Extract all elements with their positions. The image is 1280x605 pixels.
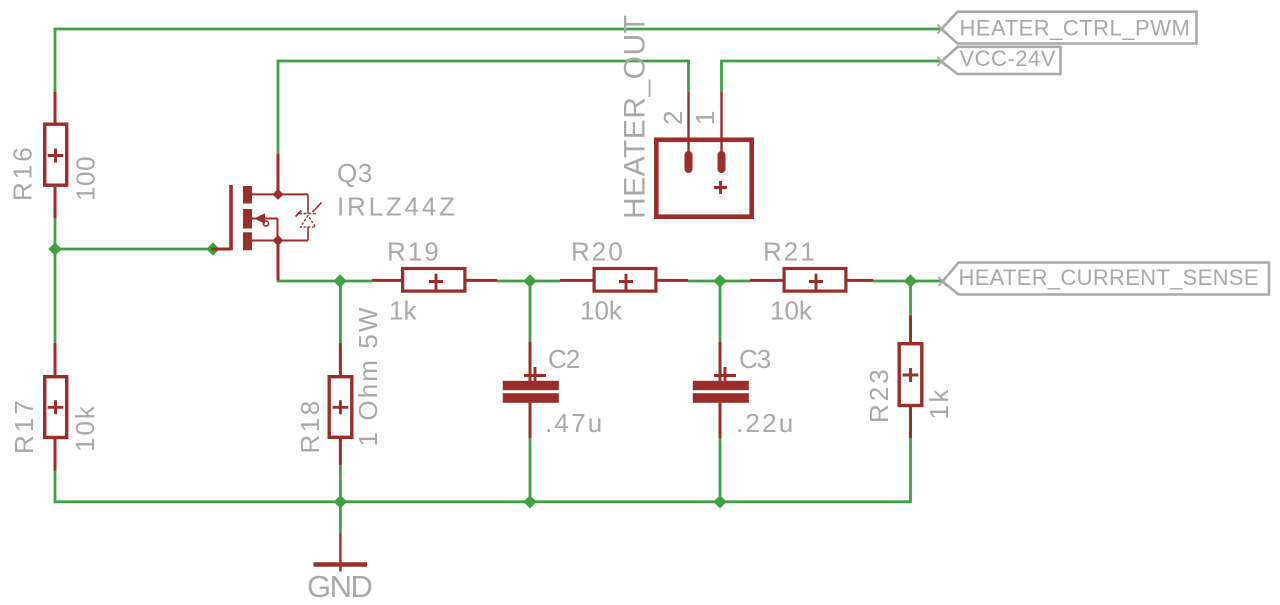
svg-text:C2: C2 bbox=[548, 344, 580, 374]
svg-text:HEATER_OUT: HEATER_OUT bbox=[619, 15, 652, 219]
svg-text:.47u: .47u bbox=[545, 408, 604, 438]
svg-text:2: 2 bbox=[658, 111, 688, 125]
svg-text:1: 1 bbox=[690, 111, 720, 125]
svg-text:VCC-24V: VCC-24V bbox=[960, 46, 1056, 71]
svg-text:HEATER_CTRL_PWM: HEATER_CTRL_PWM bbox=[960, 16, 1191, 41]
svg-text:1k: 1k bbox=[924, 387, 954, 419]
svg-text:R21: R21 bbox=[763, 237, 817, 267]
svg-text:10k: 10k bbox=[770, 296, 813, 326]
svg-text:R20: R20 bbox=[571, 237, 625, 267]
svg-text:100: 100 bbox=[71, 156, 101, 201]
svg-text:GND: GND bbox=[307, 569, 372, 600]
svg-text:IRLZ44Z: IRLZ44Z bbox=[337, 192, 458, 222]
svg-text:Q3: Q3 bbox=[337, 158, 373, 188]
svg-text:R16: R16 bbox=[8, 144, 38, 201]
svg-text:R18: R18 bbox=[295, 398, 325, 453]
svg-text:R17: R17 bbox=[9, 397, 39, 454]
svg-text:1k: 1k bbox=[389, 296, 417, 326]
svg-text:10k: 10k bbox=[580, 296, 623, 326]
svg-text:C3: C3 bbox=[739, 344, 771, 374]
svg-text:10k: 10k bbox=[70, 404, 100, 452]
svg-text:R23: R23 bbox=[864, 366, 894, 423]
svg-text:HEATER_CURRENT_SENSE: HEATER_CURRENT_SENSE bbox=[959, 265, 1259, 290]
svg-text:1 Ohm 5W: 1 Ohm 5W bbox=[353, 305, 383, 446]
svg-text:R19: R19 bbox=[387, 237, 441, 267]
svg-text:.22u: .22u bbox=[736, 408, 795, 438]
